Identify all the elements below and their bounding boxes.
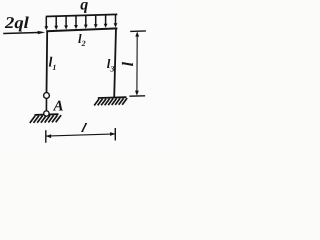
load arrow 1 — [44, 17, 48, 30]
paper background — [0, 0, 172, 152]
load arrow 5 — [84, 16, 88, 29]
right dimension line l — [135, 32, 139, 96]
right dimension bottom tick — [129, 95, 145, 97]
svg-text:2ql: 2ql — [4, 13, 29, 32]
right dimension top tick — [130, 30, 146, 33]
load arrow 6 — [94, 16, 98, 29]
left support ground line — [35, 113, 59, 116]
left support hatching — [30, 115, 61, 123]
support link bar — [45, 98, 47, 110]
right support hatching — [94, 98, 127, 105]
load arrow 4 — [74, 16, 78, 29]
bottom dimension line l — [46, 132, 115, 138]
load arrow 2 — [54, 17, 58, 30]
right support ground line — [98, 96, 127, 99]
distributed load top line — [46, 14, 118, 16]
right column (member l3) — [114, 28, 116, 98]
svg-text:l: l — [120, 61, 137, 66]
load arrow 8 — [114, 15, 118, 28]
point load 2ql arrow — [3, 31, 45, 34]
load arrow 3 — [64, 16, 68, 29]
load arrow 7 — [104, 15, 108, 28]
beam (top member, l2) — [46, 28, 117, 31]
support roller circle (lower) — [44, 111, 49, 116]
bottom dimension left tick — [45, 130, 47, 143]
hinge circle A (upper) — [44, 93, 50, 99]
left column (member l1) — [46, 30, 49, 92]
bottom dimension right tick — [114, 128, 116, 141]
svg-text:A: A — [53, 99, 64, 115]
svg-text:q: q — [80, 0, 88, 13]
